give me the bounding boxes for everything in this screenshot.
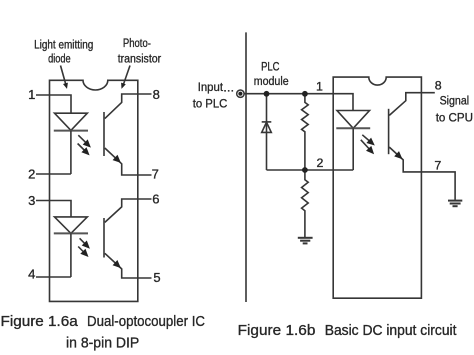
svg-text:2: 2	[28, 167, 35, 182]
svg-text:in 8-pin DIP: in 8-pin DIP	[66, 336, 139, 352]
svg-text:1: 1	[28, 87, 35, 102]
svg-text:6: 6	[152, 191, 159, 206]
svg-text:4: 4	[28, 267, 35, 282]
svg-text:to PLC: to PLC	[193, 97, 228, 111]
svg-text:Signal: Signal	[440, 93, 470, 107]
svg-text:7: 7	[152, 167, 159, 182]
svg-text:Dual-optocoupler IC: Dual-optocoupler IC	[87, 314, 205, 330]
svg-text:8: 8	[435, 79, 442, 93]
svg-text:transistor: transistor	[118, 51, 162, 65]
svg-text:module: module	[254, 74, 289, 88]
svg-text:PLC: PLC	[261, 59, 279, 73]
svg-text:Figure 1.6b: Figure 1.6b	[238, 323, 316, 339]
svg-text:to CPU: to CPU	[436, 110, 473, 124]
svg-text:3: 3	[28, 193, 35, 208]
svg-text:Photo-: Photo-	[123, 36, 151, 50]
svg-text:Input: Input	[198, 80, 224, 94]
svg-text:1: 1	[316, 79, 323, 93]
svg-text:5: 5	[153, 270, 160, 285]
svg-text:2: 2	[316, 156, 323, 170]
svg-text:Light emitting: Light emitting	[34, 38, 93, 52]
svg-text:8: 8	[153, 87, 160, 102]
svg-text:diode: diode	[48, 51, 71, 65]
svg-text:Figure 1.6a: Figure 1.6a	[1, 314, 78, 330]
svg-text:Basic DC input circuit: Basic DC input circuit	[325, 323, 457, 339]
svg-text:...: ...	[223, 80, 234, 94]
svg-text:7: 7	[434, 159, 441, 173]
